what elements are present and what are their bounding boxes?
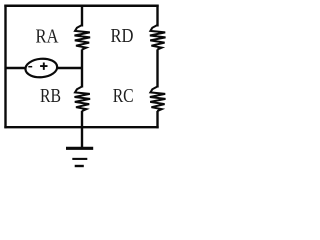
resistor RD symbol (150, 25, 166, 50)
voltage source plus sign (40, 63, 47, 70)
resistor RC symbol (150, 86, 166, 111)
wire: top edge of loop (4, 5, 158, 7)
svg-text:RB: RB (40, 85, 61, 107)
wire: right edge middle segment (156, 49, 158, 87)
wire: right edge upper segment (156, 5, 158, 27)
resistor RB symbol (75, 86, 91, 111)
wire: source right lead (58, 67, 83, 69)
wire: middle branch upper segment (81, 5, 83, 27)
voltage source minus sign (28, 66, 32, 68)
wire: middle branch mid segment (81, 49, 83, 87)
wire: middle branch lower segment to ground (81, 111, 83, 149)
wire: source left lead (6, 67, 26, 69)
svg-text:RA: RA (36, 26, 59, 48)
svg-text:RC: RC (113, 85, 134, 107)
wire: bottom edge of loop (4, 126, 158, 128)
ground symbol (66, 148, 93, 166)
svg-text:RD: RD (111, 25, 134, 47)
wire: right edge lower segment (156, 111, 158, 128)
voltage source body (ellipse) (25, 57, 58, 78)
wire: left edge of loop (4, 5, 6, 129)
resistor RA symbol (75, 25, 91, 50)
